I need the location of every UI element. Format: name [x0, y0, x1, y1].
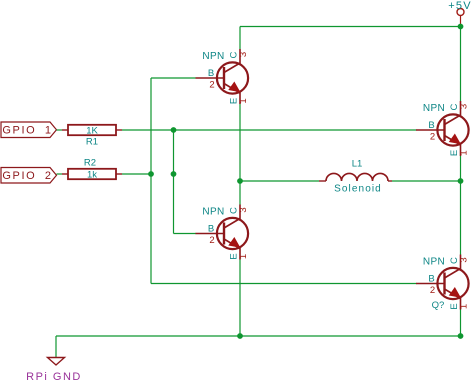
junction V2 top — [171, 127, 177, 133]
transistor Q middle-left — [196, 205, 250, 260]
junction at +5V — [458, 24, 464, 30]
svg-text:Solenoid: Solenoid — [334, 184, 382, 195]
wire GPIO1 net H1 — [122, 129, 417, 131]
svg-text:R1: R1 — [86, 137, 98, 148]
wire V2 to T2 base — [174, 233, 197, 235]
wire GPIO2 to R2 — [57, 173, 63, 175]
svg-text:GPIO 2: GPIO 2 — [2, 170, 52, 182]
wire ground drop — [55, 336, 57, 357]
global label GPIO 1 — [1, 122, 57, 138]
power RPi GND — [26, 358, 82, 382]
wire +5V top rail — [240, 26, 461, 28]
wire V1 to T1 base — [151, 77, 196, 79]
junction bottom right — [458, 333, 464, 339]
inductor L1 — [319, 159, 392, 195]
svg-text:Q?: Q? — [432, 300, 445, 311]
wire V1 vertical — [150, 78, 152, 284]
junction bottom T2 — [237, 333, 243, 339]
global label GPIO 2 — [1, 168, 57, 184]
transistor Q right-upper — [416, 101, 470, 156]
svg-text:L1: L1 — [352, 159, 363, 170]
wire GPIO2 net H2 — [122, 173, 151, 175]
wire node A vertical V3 — [239, 104, 241, 205]
wire T1 collector drop — [239, 27, 241, 50]
resistor R1 — [62, 125, 122, 148]
svg-text:GPIO 1: GPIO 1 — [2, 125, 52, 137]
power +5V — [448, 0, 471, 27]
wire bottom rail — [56, 335, 461, 337]
junction node A — [237, 178, 243, 184]
junction H2 end — [148, 171, 154, 177]
resistor R2 — [62, 158, 122, 181]
wire T4 emitter down — [460, 310, 462, 337]
svg-text:+5V: +5V — [448, 0, 471, 12]
wire T2 emitter down — [239, 260, 241, 337]
wire V2 vertical — [173, 130, 175, 234]
svg-text:1K: 1K — [86, 125, 98, 136]
transistor Q? right-lower — [416, 255, 470, 310]
wire GPIO1 to R1 — [57, 129, 63, 131]
wire right column upper — [460, 27, 462, 102]
junction node B — [458, 178, 464, 184]
svg-text:R2: R2 — [84, 158, 96, 169]
wire node B column — [460, 156, 462, 255]
junction stray on V2 — [171, 171, 177, 177]
wire L1 to node B — [392, 180, 461, 182]
svg-text:RPi GND: RPi GND — [26, 371, 82, 382]
wire node A to L1 — [240, 180, 319, 182]
wire V1 to T4 base — [151, 283, 417, 285]
transistor Q top-left — [196, 49, 250, 104]
svg-text:1k: 1k — [87, 169, 97, 180]
